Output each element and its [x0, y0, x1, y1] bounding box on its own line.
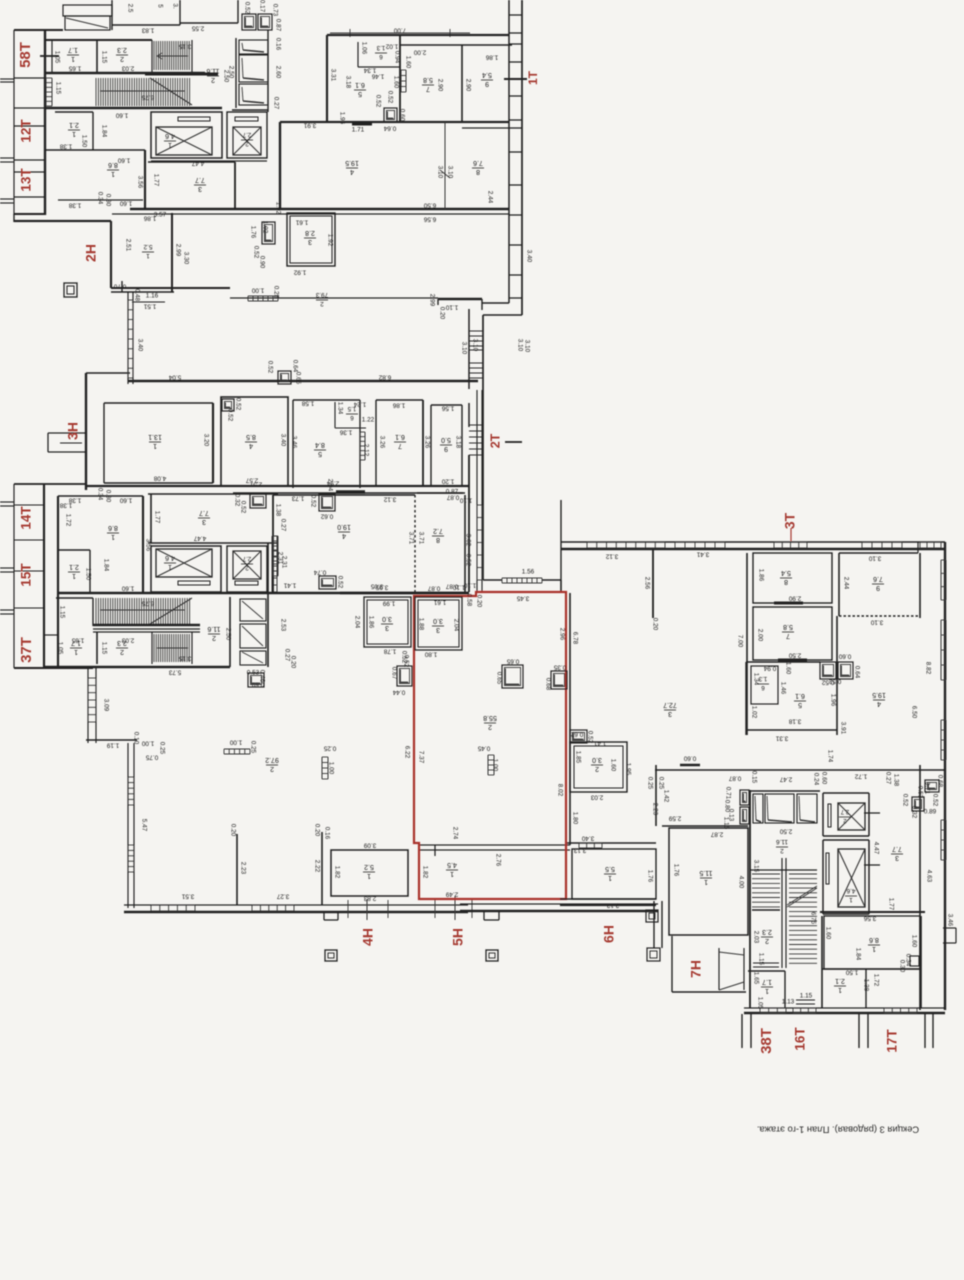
svg-text:0.52: 0.52 — [243, 2, 250, 15]
svg-text:0.52: 0.52 — [252, 246, 259, 259]
svg-text:8.5: 8.5 — [246, 433, 256, 440]
svg-text:6.1: 6.1 — [355, 81, 365, 88]
svg-text:1.72: 1.72 — [854, 772, 867, 779]
svg-text:2: 2 — [120, 55, 124, 62]
svg-text:4.6: 4.6 — [165, 132, 175, 139]
svg-text:3.40: 3.40 — [581, 834, 594, 841]
svg-text:2.99: 2.99 — [428, 294, 435, 307]
svg-text:5.2: 5.2 — [143, 243, 152, 250]
svg-text:6.1: 6.1 — [395, 433, 405, 440]
svg-text:3.15: 3.15 — [752, 860, 759, 873]
svg-text:2.50: 2.50 — [222, 70, 229, 83]
svg-text:1: 1 — [608, 874, 612, 881]
svg-text:0.52: 0.52 — [586, 731, 593, 744]
svg-text:1.38: 1.38 — [274, 504, 281, 517]
svg-text:3.05: 3.05 — [375, 583, 388, 590]
svg-text:4.08: 4.08 — [153, 474, 166, 481]
svg-text:3.10: 3.10 — [436, 166, 443, 179]
svg-text:11.5: 11.5 — [699, 869, 712, 876]
svg-text:1.71: 1.71 — [352, 127, 365, 134]
svg-text:1.77: 1.77 — [153, 511, 160, 524]
svg-text:0.20: 0.20 — [229, 824, 236, 837]
svg-text:5.8: 5.8 — [783, 623, 793, 630]
svg-text:0.16: 0.16 — [274, 38, 281, 51]
svg-text:3.20: 3.20 — [202, 434, 209, 447]
svg-text:1.82: 1.82 — [421, 866, 428, 879]
svg-text:2.1: 2.1 — [69, 121, 79, 128]
svg-text:2.22: 2.22 — [313, 860, 320, 873]
svg-text:4: 4 — [342, 532, 346, 539]
svg-text:1.65: 1.65 — [752, 972, 759, 985]
svg-text:0.27: 0.27 — [884, 772, 891, 785]
svg-text:1.80: 1.80 — [424, 650, 437, 657]
svg-text:1.60: 1.60 — [392, 76, 399, 89]
svg-text:0.32: 0.32 — [910, 806, 917, 819]
svg-text:5: 5 — [358, 90, 362, 97]
svg-text:7.7: 7.7 — [199, 509, 209, 516]
svg-text:1.72: 1.72 — [872, 974, 879, 987]
svg-text:16Т: 16Т — [793, 1027, 808, 1051]
svg-text:6: 6 — [350, 414, 354, 421]
svg-text:1: 1 — [704, 878, 708, 885]
svg-text:1.41: 1.41 — [283, 581, 296, 588]
svg-text:Секция 3 (рядовая). План 1-го: Секция 3 (рядовая). План 1-го этажа. — [757, 1125, 919, 1136]
svg-text:0.17: 0.17 — [258, 0, 265, 13]
svg-text:1.60: 1.60 — [910, 935, 917, 948]
svg-text:0.52: 0.52 — [931, 794, 938, 807]
svg-text:0.73: 0.73 — [271, 4, 278, 17]
svg-text:3.0: 3.0 — [382, 615, 392, 622]
svg-text:1.51: 1.51 — [143, 302, 156, 309]
svg-text:0.94: 0.94 — [763, 664, 776, 671]
svg-text:6.78: 6.78 — [571, 632, 578, 645]
svg-text:3.10: 3.10 — [523, 340, 530, 353]
svg-text:3.27: 3.27 — [276, 892, 289, 899]
svg-text:2.3: 2.3 — [762, 928, 772, 935]
svg-text:5.73: 5.73 — [168, 668, 181, 675]
svg-text:5.4: 5.4 — [482, 71, 492, 78]
svg-text:6.75: 6.75 — [809, 912, 816, 925]
svg-text:1.20: 1.20 — [441, 477, 454, 484]
svg-text:5: 5 — [798, 701, 802, 708]
svg-text:19.5: 19.5 — [345, 159, 359, 166]
svg-text:0.16: 0.16 — [323, 827, 330, 840]
svg-text:1.92: 1.92 — [293, 268, 306, 275]
svg-text:12Т: 12Т — [19, 119, 34, 143]
svg-text:7.6: 7.6 — [473, 159, 483, 166]
svg-text:7.00: 7.00 — [736, 635, 743, 648]
svg-text:0.74: 0.74 — [313, 568, 326, 575]
svg-text:1.84: 1.84 — [102, 559, 109, 572]
svg-text:3.: 3. — [171, 3, 178, 9]
svg-text:2Н: 2Н — [83, 244, 99, 262]
svg-text:2.12: 2.12 — [362, 444, 369, 457]
svg-text:1.76: 1.76 — [672, 864, 679, 877]
svg-text:4.6: 4.6 — [846, 887, 855, 894]
svg-text:1.92: 1.92 — [326, 234, 333, 247]
svg-text:1.99: 1.99 — [382, 599, 395, 606]
svg-text:19.0: 19.0 — [337, 523, 351, 530]
svg-text:2.50: 2.50 — [788, 651, 801, 658]
svg-text:0.27: 0.27 — [283, 649, 290, 662]
svg-text:1: 1 — [367, 872, 371, 879]
svg-text:1: 1 — [168, 563, 172, 570]
svg-text:3.0: 3.0 — [592, 756, 602, 763]
svg-text:0.60: 0.60 — [398, 109, 405, 122]
svg-text:2: 2 — [211, 76, 215, 83]
svg-text:0.20: 0.20 — [438, 307, 445, 320]
svg-text:2.23: 2.23 — [239, 862, 246, 875]
svg-text:6.82: 6.82 — [378, 373, 391, 380]
svg-text:3.41: 3.41 — [696, 550, 709, 557]
svg-text:1.50: 1.50 — [845, 968, 858, 975]
svg-text:14Т: 14Т — [19, 506, 34, 530]
svg-text:0.35: 0.35 — [553, 663, 566, 670]
svg-text:1: 1 — [838, 986, 842, 993]
svg-text:1: 1 — [450, 870, 454, 877]
svg-text:2.99: 2.99 — [174, 244, 181, 257]
svg-text:0.70: 0.70 — [113, 282, 126, 289]
svg-text:9: 9 — [876, 584, 880, 591]
svg-text:1.86: 1.86 — [392, 401, 405, 408]
svg-text:2.74: 2.74 — [451, 827, 458, 840]
svg-text:0.52: 0.52 — [234, 398, 241, 411]
svg-text:0.62: 0.62 — [570, 730, 583, 737]
svg-text:3.09: 3.09 — [363, 841, 376, 848]
svg-text:2: 2 — [320, 300, 324, 307]
svg-text:1.60: 1.60 — [119, 199, 132, 206]
svg-text:3.31: 3.31 — [775, 734, 788, 741]
svg-text:0.64: 0.64 — [853, 666, 860, 679]
svg-text:0.87: 0.87 — [446, 493, 459, 500]
svg-text:2.1: 2.1 — [835, 977, 845, 984]
svg-text:5.47: 5.47 — [140, 819, 147, 832]
svg-text:0.20: 0.20 — [313, 824, 320, 837]
svg-text:0.20: 0.20 — [289, 656, 296, 669]
svg-text:11.6: 11.6 — [207, 625, 220, 632]
svg-text:2.56: 2.56 — [643, 577, 650, 590]
svg-text:0.58: 0.58 — [465, 594, 472, 607]
svg-text:0.15: 0.15 — [750, 771, 757, 784]
svg-text:1.78: 1.78 — [383, 647, 396, 654]
svg-text:2.96: 2.96 — [558, 628, 565, 641]
svg-text:1.34: 1.34 — [363, 66, 376, 73]
svg-text:2: 2 — [120, 648, 124, 655]
svg-text:3.18: 3.18 — [788, 717, 801, 724]
svg-text:3.10: 3.10 — [868, 554, 881, 561]
svg-text:0.25: 0.25 — [646, 777, 653, 790]
svg-text:3.10: 3.10 — [870, 618, 883, 625]
svg-text:6.75: 6.75 — [141, 93, 154, 100]
svg-text:3.10: 3.10 — [516, 339, 523, 352]
svg-text:2.76: 2.76 — [494, 854, 501, 867]
svg-text:3: 3 — [436, 626, 440, 633]
svg-text:1.84: 1.84 — [854, 948, 861, 961]
svg-text:0.30: 0.30 — [104, 490, 111, 503]
svg-text:1.85: 1.85 — [574, 751, 581, 764]
svg-text:1.58: 1.58 — [301, 399, 314, 406]
svg-text:0.34: 0.34 — [96, 488, 103, 501]
svg-text:5Н: 5Н — [450, 928, 466, 946]
svg-text:2.44: 2.44 — [486, 191, 493, 204]
svg-text:0.52: 0.52 — [386, 91, 393, 104]
svg-text:1.7: 1.7 — [68, 46, 78, 53]
svg-text:1.60: 1.60 — [824, 927, 831, 940]
svg-text:1Т: 1Т — [526, 70, 540, 85]
svg-text:0.65: 0.65 — [495, 672, 502, 685]
svg-text:8.6: 8.6 — [108, 161, 118, 168]
svg-text:1.13: 1.13 — [782, 999, 795, 1006]
svg-text:0.52: 0.52 — [336, 576, 343, 589]
svg-text:1.76: 1.76 — [249, 226, 256, 239]
svg-text:3Т: 3Т — [782, 512, 798, 529]
svg-text:9: 9 — [444, 445, 448, 452]
svg-text:2.03: 2.03 — [121, 64, 134, 71]
svg-text:0.87: 0.87 — [274, 19, 281, 32]
svg-text:1.00: 1.00 — [251, 286, 264, 293]
svg-text:3.12: 3.12 — [383, 495, 396, 502]
svg-text:2: 2 — [245, 564, 249, 571]
svg-text:0.62: 0.62 — [320, 512, 333, 519]
svg-text:1.38: 1.38 — [862, 979, 869, 992]
svg-text:2.47: 2.47 — [779, 775, 792, 782]
svg-text:3.10: 3.10 — [471, 339, 478, 352]
svg-text:3.31: 3.31 — [329, 69, 336, 82]
svg-text:3.46: 3.46 — [290, 436, 297, 449]
svg-text:1.19: 1.19 — [106, 741, 119, 748]
svg-text:2.03: 2.03 — [121, 636, 134, 643]
svg-text:0.25: 0.25 — [249, 741, 256, 754]
svg-text:2.49: 2.49 — [445, 890, 458, 897]
svg-text:8: 8 — [436, 536, 440, 543]
svg-text:4.00: 4.00 — [737, 876, 744, 889]
svg-text:1.60: 1.60 — [121, 584, 134, 591]
svg-text:2.7: 2.7 — [840, 808, 849, 814]
svg-text:1.38: 1.38 — [892, 774, 899, 787]
svg-text:3.09: 3.09 — [102, 699, 109, 712]
svg-text:2: 2 — [765, 937, 769, 944]
svg-text:3.10: 3.10 — [460, 342, 467, 355]
svg-text:1: 1 — [74, 648, 78, 655]
svg-text:4.47: 4.47 — [872, 842, 879, 855]
svg-text:0.87: 0.87 — [728, 774, 741, 781]
svg-text:7.37: 7.37 — [417, 751, 424, 764]
svg-text:1.88: 1.88 — [417, 618, 424, 631]
svg-text:6.75: 6.75 — [141, 599, 154, 606]
svg-text:3.45: 3.45 — [516, 594, 529, 601]
svg-text:0.52: 0.52 — [828, 677, 841, 684]
svg-text:1.65: 1.65 — [71, 636, 84, 643]
svg-text:1: 1 — [111, 533, 115, 540]
svg-text:2.60: 2.60 — [274, 66, 281, 79]
svg-text:7: 7 — [786, 632, 790, 639]
svg-text:1.15: 1.15 — [54, 82, 61, 95]
svg-text:9: 9 — [485, 80, 489, 87]
svg-text:1.15: 1.15 — [757, 953, 764, 966]
svg-text:2.90: 2.90 — [464, 79, 471, 92]
svg-text:0.87: 0.87 — [427, 584, 440, 591]
svg-text:3.18: 3.18 — [454, 436, 461, 449]
svg-text:1.06: 1.06 — [360, 42, 367, 55]
svg-text:11.6: 11.6 — [776, 838, 788, 845]
svg-text:17Т: 17Т — [885, 1029, 900, 1053]
svg-text:2.87: 2.87 — [710, 830, 723, 837]
svg-text:0.52: 0.52 — [239, 501, 246, 514]
svg-text:8.4: 8.4 — [315, 441, 325, 448]
svg-text:3.91: 3.91 — [303, 121, 316, 128]
svg-text:19.5: 19.5 — [872, 691, 886, 698]
svg-text:5: 5 — [156, 4, 163, 8]
svg-text:2.44: 2.44 — [842, 577, 849, 590]
svg-text:8.02: 8.02 — [556, 784, 563, 797]
svg-text:0.48: 0.48 — [133, 289, 140, 302]
svg-text:0.64: 0.64 — [291, 360, 298, 373]
svg-text:3.40: 3.40 — [525, 250, 532, 263]
svg-text:3.91: 3.91 — [839, 722, 846, 735]
svg-text:3: 3 — [308, 238, 312, 245]
svg-text:0.75: 0.75 — [145, 753, 158, 760]
svg-text:6Н: 6Н — [601, 925, 617, 943]
svg-text:2.55: 2.55 — [191, 24, 204, 31]
svg-text:3.56: 3.56 — [136, 176, 143, 189]
svg-text:1.38: 1.38 — [68, 201, 81, 208]
svg-text:2.7: 2.7 — [242, 555, 251, 562]
svg-text:1.38: 1.38 — [59, 142, 72, 149]
svg-text:2.3: 2.3 — [117, 46, 127, 53]
svg-text:1.22: 1.22 — [362, 417, 375, 424]
svg-text:4.47: 4.47 — [191, 159, 204, 166]
svg-text:8.6: 8.6 — [108, 524, 118, 531]
svg-text:6.56: 6.56 — [423, 215, 436, 222]
svg-text:1.16: 1.16 — [146, 293, 159, 300]
svg-text:1.77: 1.77 — [887, 898, 894, 911]
svg-text:2.57: 2.57 — [249, 480, 262, 487]
svg-text:2.7: 2.7 — [242, 131, 251, 138]
svg-text:2.83: 2.83 — [363, 894, 376, 901]
svg-text:1.02: 1.02 — [385, 42, 398, 49]
svg-text:3.13: 3.13 — [573, 846, 586, 853]
svg-text:1.38: 1.38 — [59, 501, 72, 508]
svg-text:0.52: 0.52 — [901, 794, 908, 807]
svg-text:1.60: 1.60 — [115, 111, 128, 118]
svg-text:2.1: 2.1 — [69, 563, 79, 570]
svg-text:0.60: 0.60 — [838, 652, 851, 659]
svg-text:0.71: 0.71 — [724, 787, 731, 800]
svg-text:1.76: 1.76 — [646, 870, 653, 883]
svg-text:1: 1 — [765, 987, 769, 994]
svg-text:97.2: 97.2 — [265, 756, 279, 763]
svg-text:7.2: 7.2 — [433, 527, 443, 534]
svg-text:1: 1 — [111, 170, 115, 177]
svg-text:3.40: 3.40 — [136, 339, 143, 352]
svg-text:5.5: 5.5 — [605, 865, 615, 872]
svg-text:1.46: 1.46 — [371, 72, 384, 79]
svg-text:3.30: 3.30 — [182, 252, 189, 265]
svg-text:1: 1 — [849, 896, 853, 903]
svg-text:2.51: 2.51 — [124, 239, 131, 252]
svg-text:4.47: 4.47 — [193, 534, 206, 541]
svg-text:1.82: 1.82 — [333, 866, 340, 879]
svg-text:1.61: 1.61 — [295, 218, 308, 225]
svg-text:2.00: 2.00 — [756, 629, 763, 642]
svg-text:2.23: 2.23 — [651, 803, 658, 816]
svg-text:2.03: 2.03 — [590, 793, 603, 800]
svg-text:3.71: 3.71 — [407, 532, 414, 545]
svg-text:5.04: 5.04 — [168, 373, 181, 380]
svg-text:1.15: 1.15 — [100, 51, 107, 64]
svg-text:4.5: 4.5 — [447, 861, 457, 868]
svg-text:3.18: 3.18 — [344, 76, 351, 89]
svg-text:6.22: 6.22 — [403, 746, 410, 759]
svg-text:3: 3 — [895, 854, 899, 861]
svg-text:2.00: 2.00 — [413, 48, 426, 55]
svg-text:2.31: 2.31 — [276, 552, 283, 565]
svg-text:6.1: 6.1 — [795, 692, 805, 699]
svg-text:7: 7 — [426, 85, 430, 92]
svg-text:4: 4 — [350, 168, 354, 175]
svg-text:1: 1 — [168, 141, 172, 148]
svg-text:0.60: 0.60 — [820, 772, 827, 785]
svg-text:1.86: 1.86 — [757, 569, 764, 582]
svg-text:1.7: 1.7 — [762, 978, 772, 985]
svg-text:0.25: 0.25 — [657, 777, 664, 790]
svg-text:0.64: 0.64 — [383, 124, 396, 131]
svg-text:6.50: 6.50 — [910, 706, 917, 719]
svg-text:6: 6 — [761, 684, 765, 691]
svg-text:0.52: 0.52 — [266, 361, 273, 374]
svg-text:1: 1 — [72, 572, 76, 579]
svg-text:38Т: 38Т — [758, 1028, 775, 1054]
svg-text:2.5: 2.5 — [126, 4, 133, 13]
svg-text:2.94: 2.94 — [326, 479, 339, 486]
svg-text:2: 2 — [270, 765, 274, 772]
svg-text:3.10: 3.10 — [446, 166, 453, 179]
svg-text:1.60: 1.60 — [119, 496, 132, 503]
svg-text:5.4: 5.4 — [781, 569, 791, 576]
svg-text:7Н: 7Н — [688, 960, 704, 978]
svg-text:1.60: 1.60 — [404, 56, 411, 69]
svg-text:1.00: 1.00 — [327, 762, 334, 775]
svg-text:8.6: 8.6 — [869, 936, 879, 943]
svg-text:1.96: 1.96 — [829, 694, 836, 707]
svg-text:58Т: 58Т — [17, 42, 34, 68]
svg-text:0.52: 0.52 — [402, 655, 409, 668]
svg-text:15Т: 15Т — [19, 563, 34, 587]
svg-text:3: 3 — [198, 185, 202, 192]
svg-text:3: 3 — [385, 624, 389, 631]
svg-text:8: 8 — [476, 168, 480, 175]
svg-text:3.46: 3.46 — [946, 914, 953, 927]
svg-text:13.1: 13.1 — [148, 433, 162, 440]
svg-text:1.3: 1.3 — [376, 44, 385, 51]
svg-text:0.60: 0.60 — [683, 754, 696, 761]
svg-text:1.10: 1.10 — [452, 583, 465, 590]
svg-text:1.96: 1.96 — [338, 112, 345, 125]
svg-text:1.15: 1.15 — [100, 642, 107, 655]
svg-text:3: 3 — [668, 710, 672, 717]
svg-text:1.05: 1.05 — [56, 642, 63, 655]
svg-text:8: 8 — [784, 578, 788, 585]
svg-text:0.67: 0.67 — [390, 667, 397, 680]
svg-text:1.36: 1.36 — [339, 428, 352, 435]
svg-text:7.00: 7.00 — [393, 26, 406, 33]
svg-text:0.53: 0.53 — [916, 786, 923, 799]
svg-text:2.04: 2.04 — [353, 616, 360, 629]
svg-text:3.26: 3.26 — [378, 436, 385, 449]
svg-text:72.7: 72.7 — [663, 701, 677, 708]
svg-text:1.15: 1.15 — [800, 993, 813, 1000]
svg-text:1.65: 1.65 — [68, 64, 81, 71]
